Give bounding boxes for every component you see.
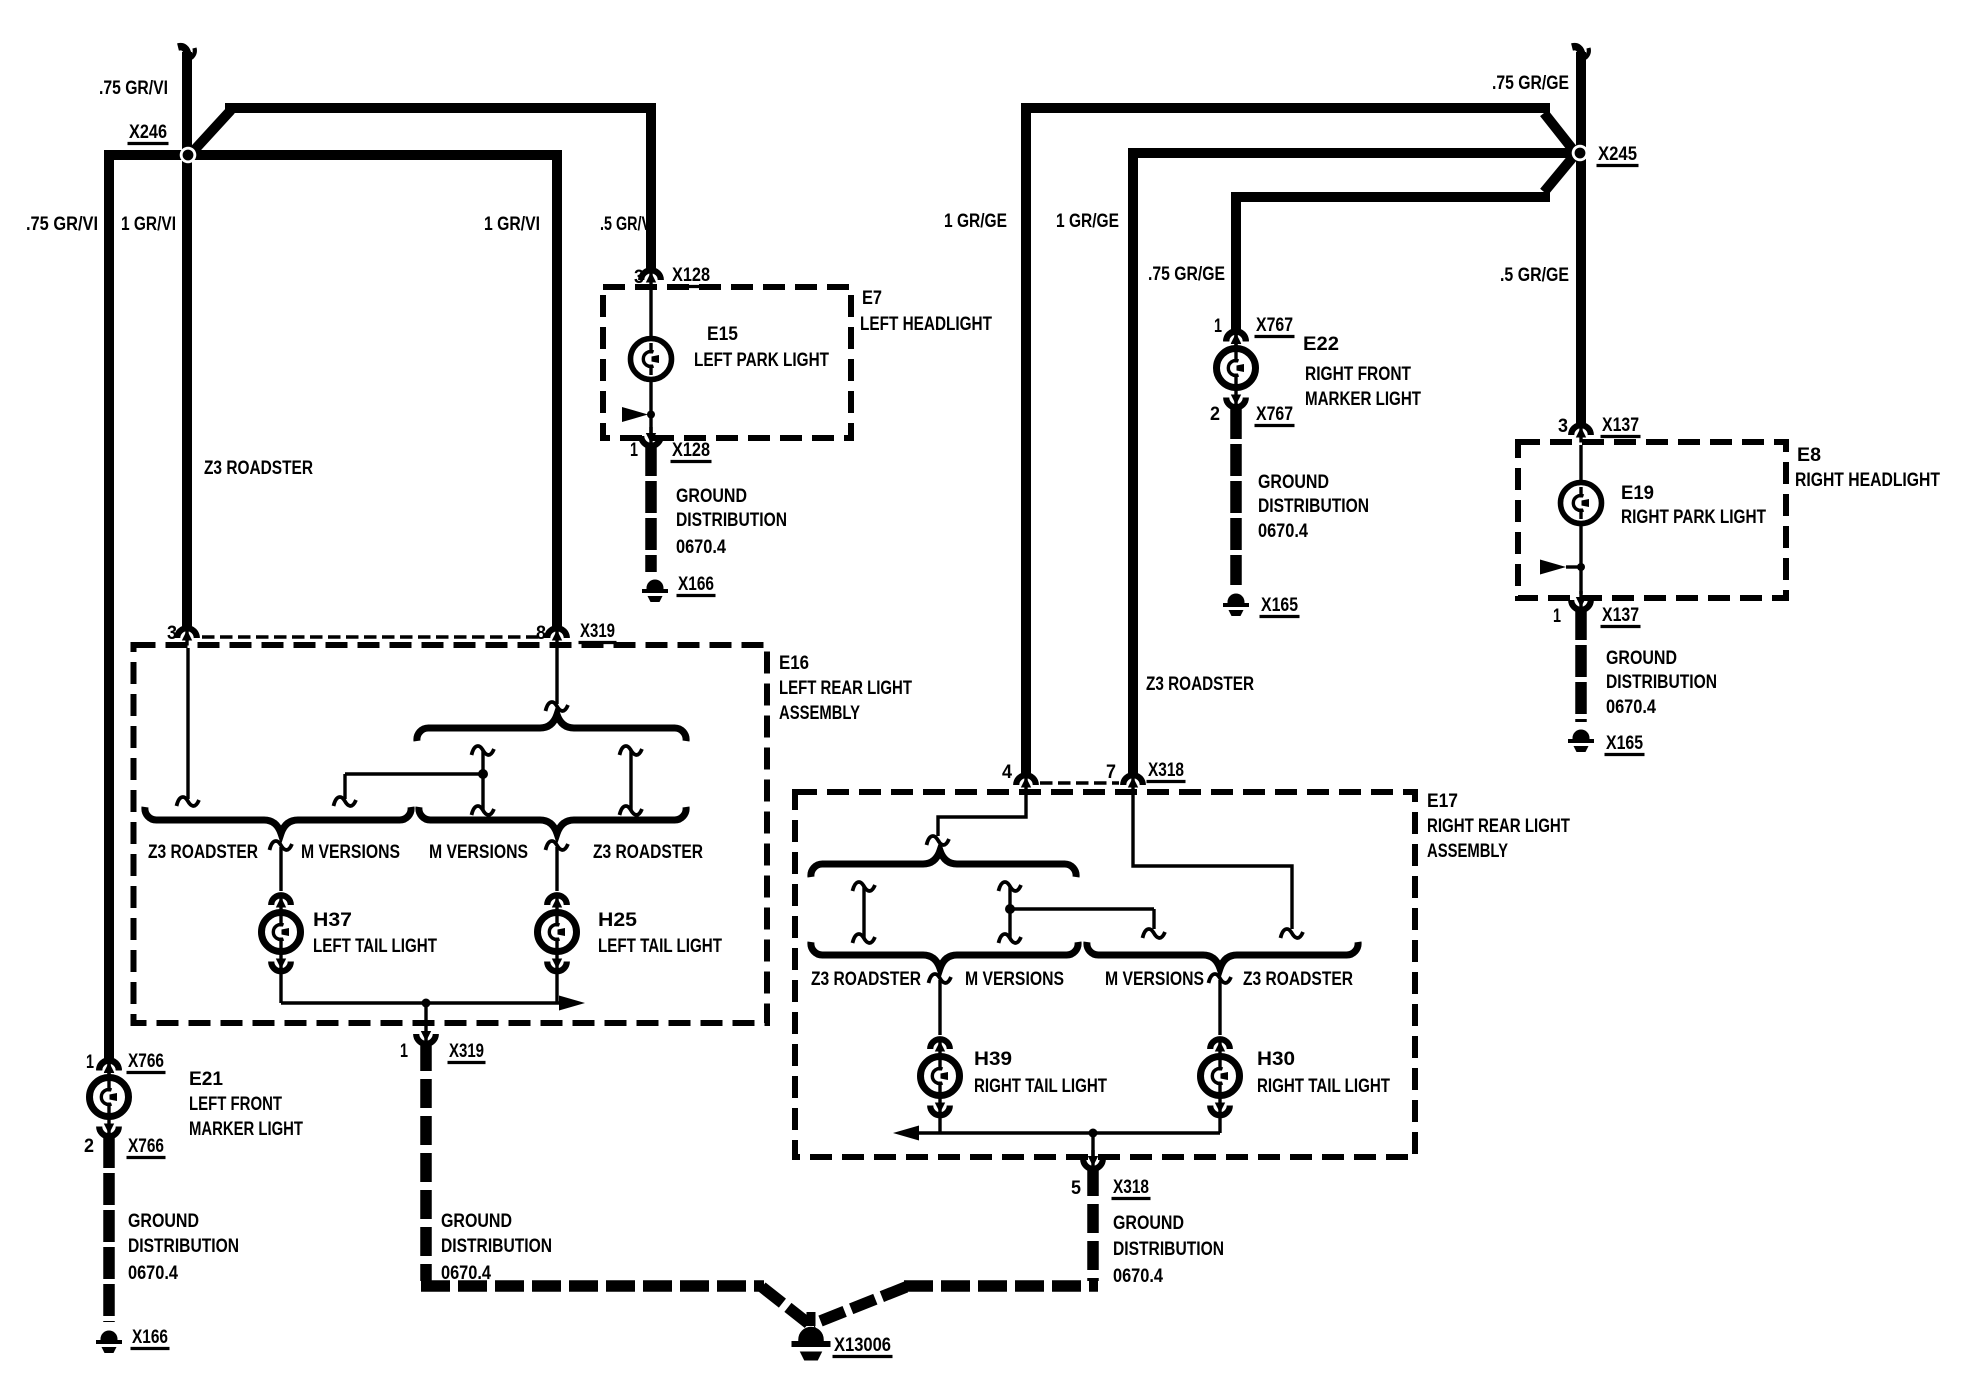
svg-text:Z3 ROADSTER: Z3 ROADSTER xyxy=(1243,969,1353,990)
svg-text:.75 GR/VI: .75 GR/VI xyxy=(26,214,98,235)
svg-text:LEFT REAR LIGHT: LEFT REAR LIGHT xyxy=(779,678,912,699)
svg-text:1: 1 xyxy=(1553,606,1561,627)
svg-text:LEFT FRONT: LEFT FRONT xyxy=(189,1094,282,1115)
svg-text:E7: E7 xyxy=(862,288,882,309)
svg-text:0670.4: 0670.4 xyxy=(676,537,726,558)
svg-text:1 GR/VI: 1 GR/VI xyxy=(484,214,540,235)
svg-text:M VERSIONS: M VERSIONS xyxy=(429,842,528,863)
svg-text:H30: H30 xyxy=(1257,1049,1295,1070)
svg-text:1: 1 xyxy=(1214,316,1222,337)
svg-text:.75 GR/GE: .75 GR/GE xyxy=(1148,264,1225,285)
svg-text:X13006: X13006 xyxy=(834,1335,891,1356)
svg-text:X166: X166 xyxy=(678,574,714,595)
svg-text:Z3 ROADSTER: Z3 ROADSTER xyxy=(811,969,921,990)
svg-text:X246: X246 xyxy=(129,122,167,143)
svg-text:E22: E22 xyxy=(1303,334,1339,355)
svg-text:1: 1 xyxy=(400,1041,408,1062)
svg-text:H39: H39 xyxy=(974,1049,1012,1070)
svg-text:MARKER LIGHT: MARKER LIGHT xyxy=(189,1119,303,1140)
svg-text:0670.4: 0670.4 xyxy=(1113,1266,1163,1287)
svg-text:RIGHT TAIL LIGHT: RIGHT TAIL LIGHT xyxy=(974,1076,1107,1097)
svg-text:GROUND: GROUND xyxy=(1258,472,1329,493)
svg-text:M VERSIONS: M VERSIONS xyxy=(301,842,400,863)
svg-text:1 GR/GE: 1 GR/GE xyxy=(944,211,1007,232)
svg-text:X128: X128 xyxy=(672,265,710,286)
svg-text:ASSEMBLY: ASSEMBLY xyxy=(779,703,860,724)
svg-text:GROUND: GROUND xyxy=(128,1211,199,1232)
svg-text:1: 1 xyxy=(86,1052,94,1073)
svg-text:E17: E17 xyxy=(1427,791,1458,812)
svg-text:LEFT TAIL LIGHT: LEFT TAIL LIGHT xyxy=(598,936,722,957)
svg-text:Z3 ROADSTER: Z3 ROADSTER xyxy=(593,842,703,863)
svg-text:X767: X767 xyxy=(1256,315,1293,336)
svg-text:ASSEMBLY: ASSEMBLY xyxy=(1427,841,1508,862)
svg-text:4: 4 xyxy=(1002,762,1012,783)
svg-text:MARKER LIGHT: MARKER LIGHT xyxy=(1305,389,1421,410)
svg-text:RIGHT HEADLIGHT: RIGHT HEADLIGHT xyxy=(1795,470,1940,491)
svg-text:X766: X766 xyxy=(128,1136,164,1157)
svg-text:H37: H37 xyxy=(313,910,352,931)
svg-text:X165: X165 xyxy=(1261,595,1298,616)
svg-text:RIGHT REAR LIGHT: RIGHT REAR LIGHT xyxy=(1427,816,1570,837)
svg-text:X245: X245 xyxy=(1598,144,1637,165)
svg-text:Z3 ROADSTER: Z3 ROADSTER xyxy=(204,458,313,479)
svg-text:7: 7 xyxy=(1106,762,1116,783)
svg-text:1 GR/GE: 1 GR/GE xyxy=(1056,211,1119,232)
svg-text:X767: X767 xyxy=(1256,404,1293,425)
svg-text:0670.4: 0670.4 xyxy=(128,1263,178,1284)
svg-text:X319: X319 xyxy=(449,1041,484,1062)
svg-text:3: 3 xyxy=(167,623,177,644)
svg-text:.75 GR/GE: .75 GR/GE xyxy=(1492,73,1569,94)
svg-text:E16: E16 xyxy=(779,653,809,674)
svg-text:2: 2 xyxy=(1210,404,1220,425)
svg-text:X766: X766 xyxy=(128,1051,164,1072)
svg-text:LEFT TAIL LIGHT: LEFT TAIL LIGHT xyxy=(313,936,437,957)
svg-text:GROUND: GROUND xyxy=(1606,648,1677,669)
svg-text:Z3 ROADSTER: Z3 ROADSTER xyxy=(1146,674,1254,695)
svg-text:1: 1 xyxy=(630,440,638,461)
svg-text:1 GR/VI: 1 GR/VI xyxy=(121,214,176,235)
svg-text:H25: H25 xyxy=(598,910,637,931)
svg-text:3: 3 xyxy=(634,267,644,288)
svg-text:X137: X137 xyxy=(1602,605,1639,626)
svg-text:X128: X128 xyxy=(672,440,710,461)
svg-text:DISTRIBUTION: DISTRIBUTION xyxy=(128,1236,239,1257)
svg-text:0670.4: 0670.4 xyxy=(441,1263,491,1284)
svg-text:E15: E15 xyxy=(707,324,738,345)
svg-text:X165: X165 xyxy=(1606,733,1643,754)
svg-text:DISTRIBUTION: DISTRIBUTION xyxy=(441,1236,552,1257)
svg-text:E21: E21 xyxy=(189,1069,223,1090)
svg-text:X318: X318 xyxy=(1113,1177,1149,1198)
svg-text:X137: X137 xyxy=(1602,415,1639,436)
svg-text:DISTRIBUTION: DISTRIBUTION xyxy=(676,510,787,531)
svg-text:2: 2 xyxy=(84,1136,94,1157)
svg-text:5: 5 xyxy=(1071,1178,1081,1199)
svg-text:M VERSIONS: M VERSIONS xyxy=(965,969,1064,990)
svg-text:0670.4: 0670.4 xyxy=(1606,697,1656,718)
svg-text:E8: E8 xyxy=(1797,445,1821,466)
svg-text:.5 GR/VI: .5 GR/VI xyxy=(600,214,655,235)
svg-text:.5 GR/GE: .5 GR/GE xyxy=(1500,265,1569,286)
svg-text:LEFT HEADLIGHT: LEFT HEADLIGHT xyxy=(860,314,992,335)
svg-text:X319: X319 xyxy=(580,621,615,642)
svg-text:RIGHT PARK LIGHT: RIGHT PARK LIGHT xyxy=(1621,507,1766,528)
svg-text:0670.4: 0670.4 xyxy=(1258,521,1308,542)
svg-text:8: 8 xyxy=(536,623,546,644)
svg-text:DISTRIBUTION: DISTRIBUTION xyxy=(1113,1239,1224,1260)
svg-text:X166: X166 xyxy=(132,1327,168,1348)
svg-text:.75 GR/VI: .75 GR/VI xyxy=(99,78,168,99)
svg-text:RIGHT FRONT: RIGHT FRONT xyxy=(1305,364,1411,385)
svg-text:GROUND: GROUND xyxy=(1113,1213,1184,1234)
svg-text:DISTRIBUTION: DISTRIBUTION xyxy=(1606,672,1717,693)
svg-text:RIGHT TAIL LIGHT: RIGHT TAIL LIGHT xyxy=(1257,1076,1390,1097)
svg-text:GROUND: GROUND xyxy=(676,486,747,507)
svg-text:X318: X318 xyxy=(1148,760,1184,781)
svg-text:Z3 ROADSTER: Z3 ROADSTER xyxy=(148,842,258,863)
svg-text:LEFT PARK LIGHT: LEFT PARK LIGHT xyxy=(694,350,829,371)
svg-text:E19: E19 xyxy=(1621,483,1654,504)
svg-text:DISTRIBUTION: DISTRIBUTION xyxy=(1258,496,1369,517)
svg-text:3: 3 xyxy=(1558,416,1568,437)
svg-text:GROUND: GROUND xyxy=(441,1211,512,1232)
svg-text:M VERSIONS: M VERSIONS xyxy=(1105,969,1204,990)
